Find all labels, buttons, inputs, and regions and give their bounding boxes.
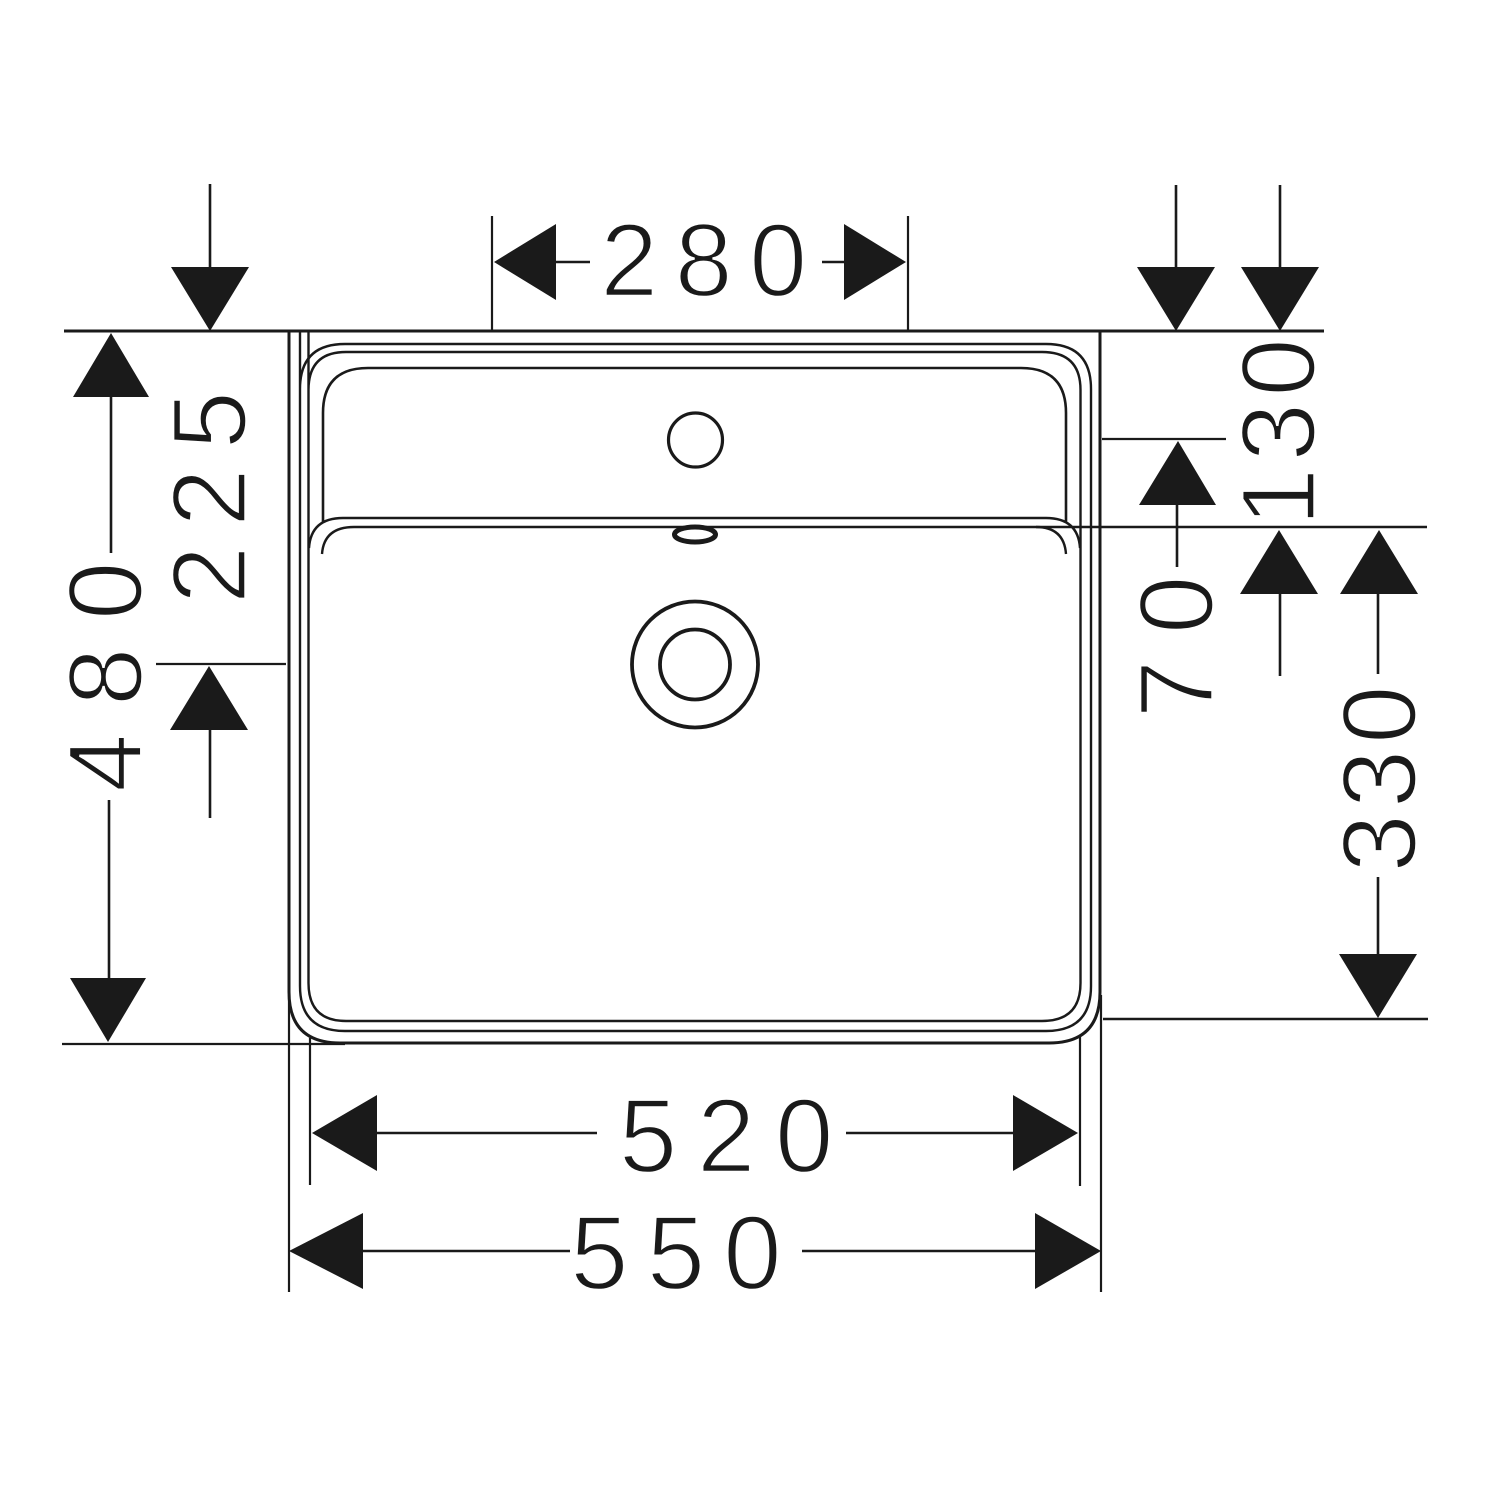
- dim 330: top arrowhead: [1340, 530, 1418, 594]
- basin rim inner line A: [300, 331, 1091, 1031]
- dim 280: left extension line: [491, 216, 493, 331]
- dim 480: up-arrow stem: [110, 396, 113, 553]
- dim 280: left segment: [554, 261, 590, 264]
- drain outer circle: [632, 602, 758, 728]
- dim 70: top down-arrow stem: [1175, 185, 1178, 270]
- dim 520: left segment: [375, 1132, 597, 1135]
- drain inner circle: [660, 630, 730, 700]
- dim 520: right segment: [846, 1132, 1015, 1135]
- dim 130: top down-arrow stem: [1279, 185, 1282, 270]
- wall reference line (top): [64, 330, 1324, 333]
- dim 550: right segment: [802, 1250, 1037, 1253]
- dim 550: right extension line: [1100, 995, 1102, 1292]
- dim 280: right extension line: [907, 216, 909, 331]
- deck inner outline C: [323, 368, 1066, 522]
- dim 130: bottom arrowhead: [1240, 530, 1318, 594]
- svg-text:70: 70: [1119, 550, 1236, 719]
- dim 480: lower stem: [108, 800, 111, 980]
- svg-text:520: 520: [619, 1078, 853, 1195]
- drain center reference line (left, y=664): [156, 663, 286, 665]
- dim 520: left extension line: [309, 1038, 311, 1185]
- dim 70: up-arrow stem: [1176, 503, 1179, 567]
- dim 550: left arrowhead: [289, 1213, 363, 1289]
- basin rim inner line B: [309, 331, 1081, 1021]
- dim 550: left extension line: [288, 995, 290, 1292]
- dim 225: top down-arrow stem: [209, 184, 212, 270]
- deck front upper line: [309, 518, 1080, 548]
- dim 225: lower stem: [209, 730, 212, 818]
- dim 280: left arrowhead: [494, 224, 556, 300]
- svg-text:480: 480: [48, 534, 165, 792]
- bottom-left reference line: [62, 1043, 345, 1045]
- dim 225: bottom arrowhead: [170, 666, 248, 730]
- dim 480: bottom arrowhead: [70, 978, 146, 1042]
- deck front lower line: [322, 527, 1427, 554]
- faucet height reference line (right, y=439): [1102, 438, 1226, 440]
- dim 520: right extension line: [1079, 1036, 1081, 1186]
- dim 70: bottom arrowhead: [1139, 441, 1216, 505]
- bottom-right reference line: [1103, 1018, 1428, 1021]
- svg-text:130: 130: [1221, 332, 1338, 527]
- dim 70: top arrowhead: [1137, 267, 1215, 331]
- dim 330: lower stem: [1377, 877, 1380, 956]
- svg-text:225: 225: [152, 372, 269, 604]
- svg-text:280: 280: [600, 203, 824, 319]
- svg-text:550: 550: [570, 1195, 800, 1312]
- deck front lower line right end curve: [1036, 527, 1066, 554]
- dim 520: right arrowhead: [1013, 1095, 1078, 1171]
- dim 130: top arrowhead: [1241, 267, 1319, 331]
- dim 480: top arrowhead: [73, 333, 149, 397]
- dim 550: right arrowhead: [1035, 1213, 1101, 1289]
- svg-text:330: 330: [1322, 679, 1439, 872]
- dim 280: right arrowhead: [844, 224, 906, 300]
- dim 280: right segment: [822, 261, 846, 264]
- dim 330: upper stem: [1377, 592, 1380, 674]
- dim 550: left segment: [361, 1250, 570, 1253]
- overflow slot: [675, 527, 716, 542]
- dim 130: lower stem: [1279, 592, 1282, 676]
- faucet hole: [669, 413, 723, 467]
- dim 520: left arrowhead: [312, 1095, 377, 1171]
- dim 330: bottom arrowhead: [1339, 954, 1417, 1018]
- dim 225: top arrowhead: [171, 267, 249, 331]
- basin outer outline: [289, 331, 1100, 1043]
